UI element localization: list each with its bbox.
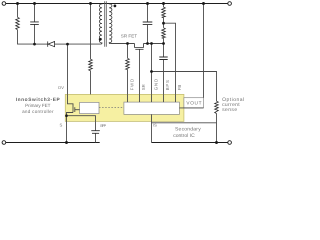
node dot top rail divider — [162, 2, 165, 5]
svg-text:FB: FB — [177, 85, 182, 91]
wire IS pin line — [151, 114, 153, 142]
wire SR pin stub — [139, 94, 141, 102]
svg-text:SR: SR — [141, 84, 146, 90]
capacitor C4 BPP plates — [91, 131, 100, 134]
wire S node to S pin and rail — [66, 116, 68, 143]
wire FET source to S node — [67, 113, 74, 116]
resistor R3 FWD secondary — [126, 58, 130, 69]
wire divider tap to FB — [164, 23, 176, 94]
terminal input plus — [2, 2, 6, 6]
wire bottom rail secondary — [152, 142, 228, 144]
primary controller box U1a — [80, 102, 99, 113]
VOUT pin tab box — [184, 98, 204, 108]
node dot sense rail — [215, 141, 218, 144]
svg-text:BPP: BPP — [100, 124, 106, 129]
svg-text:SR FET: SR FET — [121, 33, 137, 38]
node dot GND sense — [150, 70, 153, 73]
svg-text:sense: sense — [222, 107, 237, 113]
node dot divider tap — [162, 22, 165, 25]
wire clamp cap leads — [34, 4, 36, 45]
terminal output minus — [228, 141, 232, 145]
wire FB pin stub — [175, 94, 177, 102]
svg-text:FWD: FWD — [129, 79, 134, 90]
transistor Q1 gate bar — [74, 107, 76, 112]
node dot top rail output cap — [146, 2, 149, 5]
wire output cap leads — [147, 4, 149, 44]
dashed link primary-secondary — [99, 106, 124, 108]
terminal input minus — [2, 141, 6, 145]
svg-text:IS: IS — [153, 123, 157, 128]
svg-text:and controller: and controller — [22, 109, 53, 114]
svg-text:Primary FET: Primary FET — [25, 103, 51, 108]
capacitor C2 output plates — [143, 22, 153, 25]
node dot GND top — [150, 42, 153, 45]
secondary control IC box U1b — [124, 102, 179, 114]
svg-text:BPS: BPS — [165, 80, 170, 90]
transformer T1 core — [105, 1, 107, 46]
transistor Q2 SR FET — [135, 44, 144, 50]
wire clamp resistor leads — [18, 4, 35, 45]
wire S node to BPP internal — [67, 116, 96, 122]
node dot BPS node — [162, 42, 165, 45]
wire VOUT sense line — [203, 4, 205, 98]
wire divider R1 leads — [163, 4, 165, 24]
node dot source internal — [65, 114, 68, 117]
node dot clamp C bottom — [33, 43, 36, 46]
transformer T1 secondary winding — [109, 4, 112, 44]
IC block InnoSwitch3-EP (yellow body) — [65, 94, 184, 121]
wire gate to controller box — [75, 109, 80, 111]
resistor R6 current sense — [215, 101, 219, 113]
terminal output plus — [228, 2, 232, 6]
wire drain node to primary winding — [68, 43, 101, 45]
node dot top rail FWD line — [89, 2, 92, 5]
capacitor C3 BPS plates — [159, 57, 167, 60]
wire BPS pin stub — [163, 94, 165, 102]
wire FWD sec resistor leads — [127, 44, 129, 95]
wire BPS cap leads — [163, 44, 165, 95]
resistor R1 clamp — [16, 17, 20, 29]
wire FWD primary-side line with resistor leads — [90, 4, 92, 95]
capacitor C1 clamp plates — [30, 22, 39, 25]
wire SR FET source to BPS node — [144, 43, 164, 45]
wire VOUT pin to tab — [179, 107, 203, 109]
wire D internal to FET drain — [68, 94, 74, 106]
svg-text:Secondary: Secondary — [175, 126, 201, 132]
svg-text:GND: GND — [153, 79, 158, 90]
resistor R5 divider lower — [162, 28, 166, 38]
wire drain down to D pin — [67, 44, 69, 94]
wire GND to current sense — [152, 72, 217, 102]
wire FWD pin stub — [127, 94, 129, 102]
transistor Q1 primary FET channel — [72, 107, 74, 113]
wire IS to sense node — [152, 122, 217, 124]
wire SR gate down to SR pin — [139, 49, 141, 94]
wire bottom rail primary — [5, 142, 99, 144]
node dot top rail clamp C — [33, 2, 36, 5]
node dot output cap bottom — [146, 42, 149, 45]
transformer T1 secondary polarity dot — [114, 5, 117, 8]
transformer T1 primary winding — [99, 4, 102, 45]
diode D1 clamp — [48, 41, 55, 46]
resistor R2 FWD primary — [89, 59, 93, 70]
transformer T1 primary polarity dot — [99, 38, 102, 41]
wire GND pin stub — [151, 94, 153, 102]
wire divider R2 leads — [163, 23, 165, 43]
wire diode to drain node — [55, 43, 68, 45]
resistor R4 divider upper — [162, 7, 166, 18]
node dot S rail — [65, 141, 68, 144]
wire BPP cap leads — [95, 121, 97, 142]
node dot top rail VOUT line — [202, 2, 205, 5]
wire sense resistor bottom — [216, 114, 218, 143]
node dot FWD tap — [126, 42, 129, 45]
node dot top rail clamp R — [16, 2, 19, 5]
node dot drain — [66, 43, 69, 46]
svg-text:S: S — [60, 123, 63, 128]
wire clamp node to diode — [35, 43, 48, 45]
svg-text:control IC: control IC — [173, 133, 195, 139]
svg-text:InnoSwitch3-EP: InnoSwitch3-EP — [16, 97, 60, 103]
svg-text:DV: DV — [58, 86, 64, 91]
wire GND pin line — [151, 44, 153, 95]
wire secondary bottom to SR FET — [111, 43, 135, 45]
wire top rail — [6, 3, 228, 5]
